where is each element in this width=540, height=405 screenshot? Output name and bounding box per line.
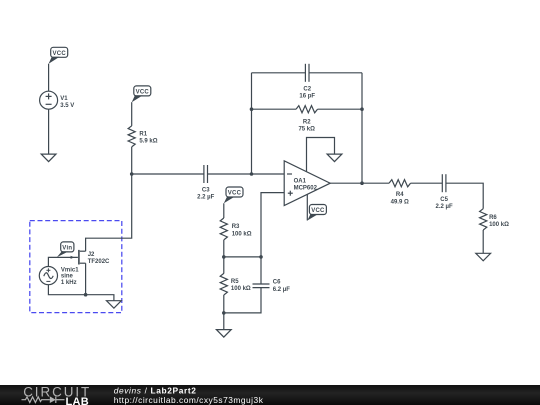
wire R5 bottom to node E — [223, 295, 225, 313]
svg-text:VCC: VCC — [228, 191, 242, 197]
vin flag Vin (on J2 gate wire) — [57, 242, 74, 257]
svg-text:C6: C6 — [273, 280, 281, 286]
wire op-amp V+ power pin to ground — [307, 138, 335, 172]
svg-text:http://circuitlab.com/cxy5s73m: http://circuitlab.com/cxy5s73mguj3k — [114, 395, 264, 405]
wire VCC flag to V1 + terminal — [48, 64, 50, 92]
junction node D right (C6 top / op-amp +) — [259, 255, 263, 259]
wire C3 right plate to op-amp inverting input (node B) — [208, 173, 285, 175]
wire op-amp output to node C — [330, 182, 362, 184]
wire node A to C3 left plate — [132, 173, 204, 175]
wire Vmic1 top to J2 gate — [48, 257, 78, 266]
svg-text:R1: R1 — [139, 132, 147, 138]
wire R2 left segment — [252, 108, 297, 110]
svg-text:C3: C3 — [202, 188, 210, 194]
wire J2 drain to node A riser — [86, 174, 132, 251]
junction node F (J2 source / Vmic1 - / ground) — [84, 293, 88, 297]
svg-text:R3: R3 — [232, 224, 240, 230]
wire R2 right segment — [318, 108, 363, 110]
svg-text:5.9 kΩ: 5.9 kΩ — [139, 139, 157, 145]
svg-text:100 kΩ: 100 kΩ — [232, 231, 252, 237]
junction node B (C3 / feedback / op-amp -) — [250, 172, 254, 176]
svg-text:J2: J2 — [88, 252, 95, 258]
wire C5 to R6 top — [446, 183, 483, 209]
ground (inside mic box) — [107, 301, 122, 309]
svg-text:16 pF: 16 pF — [299, 94, 315, 100]
wire R1 bottom to node A — [131, 147, 133, 174]
wire J2 source down to node F — [85, 263, 87, 295]
wire R6 bottom to ground — [482, 230, 484, 253]
wire node D to R5 top — [223, 257, 225, 274]
resistor R6 100 kOhm — [480, 209, 510, 230]
footer bar — [0, 385, 540, 405]
svg-text:V1: V1 — [60, 96, 68, 102]
svg-text:sine: sine — [61, 274, 74, 280]
svg-text:Vin: Vin — [62, 246, 72, 252]
svg-text:MCP602: MCP602 — [294, 186, 318, 192]
wire VCC flag to R3 top — [223, 203, 225, 218]
svg-text:75 kΩ: 75 kΩ — [298, 126, 315, 132]
svg-text:VCC: VCC — [311, 208, 325, 214]
resistor R3 100 kOhm — [220, 218, 252, 240]
svg-text:C5: C5 — [440, 197, 448, 203]
ground (op-amp V+ pin) — [327, 154, 342, 162]
wire C2 top left segment — [252, 72, 306, 74]
gate arrow of J2 — [71, 256, 75, 259]
svg-text:C2: C2 — [303, 86, 311, 92]
wire C6 top lead — [260, 257, 262, 284]
svg-text:OA1: OA1 — [294, 178, 307, 184]
wire feedback right vertical (C2 down to output node C) — [361, 73, 363, 183]
transistor J2 TF202C (N-JFET) — [78, 250, 110, 265]
svg-text:2.2 µF: 2.2 µF — [197, 195, 214, 201]
svg-text:3.5 V: 3.5 V — [60, 103, 74, 109]
junction node A (R1 / C3 / J2 drain riser) — [130, 172, 134, 176]
wire V1 - terminal to ground — [48, 109, 50, 154]
junction R2 right on feedback vertical — [360, 107, 364, 111]
svg-text:R5: R5 — [231, 279, 239, 285]
wire C6 bottom lead to node E — [224, 288, 261, 313]
svg-text:100 kΩ: 100 kΩ — [489, 222, 509, 228]
svg-text:R2: R2 — [303, 119, 311, 125]
resistor R4 49.9 Ohm — [389, 180, 411, 206]
wire feedback left vertical (node B up to C2) — [251, 73, 253, 174]
ground (below V1) — [41, 154, 56, 162]
wire R4 to C5 — [411, 182, 443, 184]
junction node E (R5 / C6 / ground) — [222, 311, 226, 315]
svg-text:VCC: VCC — [136, 90, 150, 96]
svg-text:VCC: VCC — [52, 51, 66, 57]
wire C2 top right segment — [309, 72, 362, 74]
svg-text:1 kHz: 1 kHz — [61, 280, 77, 286]
capacitor C5 2.2 uF — [436, 174, 453, 210]
svg-text:2.2 µF: 2.2 µF — [436, 204, 453, 210]
svg-text:6.2 µF: 6.2 µF — [273, 287, 290, 293]
wire node C to R4 — [362, 182, 389, 184]
wire R3 bottom to node D — [223, 240, 225, 257]
wire Vmic1 bottom to node F and ground — [48, 285, 114, 301]
capacitor C6 6.2 uF — [253, 280, 291, 293]
op-amp OA1 MCP602 — [284, 161, 330, 206]
svg-text:100 kΩ: 100 kΩ — [231, 286, 251, 292]
resistor R2 75 kOhm — [296, 106, 318, 133]
wire VCC flag to R1 top — [131, 102, 133, 126]
wire node E to ground — [223, 313, 225, 330]
svg-text:49.9 Ω: 49.9 Ω — [391, 199, 409, 205]
ground (below R5/C6) — [216, 330, 231, 338]
vcc flag VCC (top of R1) — [132, 86, 151, 102]
vcc flag VCC (top of R3) — [224, 187, 243, 203]
svg-text:LAB: LAB — [66, 395, 90, 405]
capacitor C3 2.2 uF — [197, 165, 214, 201]
resistor R5 100 kOhm — [220, 273, 251, 295]
junction R2 left on feedback vertical — [250, 107, 254, 111]
svg-text:devins / Lab2Part2: devins / Lab2Part2 — [114, 385, 197, 395]
sine source Vmic1 1 kHz — [39, 267, 79, 287]
wire op-amp V- power pin to VCC flag — [306, 194, 308, 220]
resistor R1 5.9 kOhm — [128, 126, 158, 147]
vcc flag VCC (op-amp V- pin) — [307, 205, 326, 221]
vcc flag VCC (top of V1) — [49, 47, 68, 63]
dashed selection box around microphone model — [30, 221, 122, 313]
svg-text:R6: R6 — [489, 215, 497, 221]
svg-text:TF202C: TF202C — [88, 259, 110, 265]
wire node D horizontal (R3/R5 to C6/op-amp+) — [224, 256, 261, 258]
capacitor C2 16 pF — [299, 64, 315, 100]
ground (below R6) — [476, 253, 491, 260]
wire op-amp non-inverting input to node D — [261, 193, 284, 257]
voltage source V1 3.5 V — [40, 91, 75, 109]
junction node D left (R3/R5) — [222, 255, 226, 259]
junction node C (output / feedback / R4) — [360, 181, 364, 185]
svg-text:R4: R4 — [396, 192, 404, 198]
circuitlab logo doodle (resistor + diode wire) — [22, 396, 65, 403]
